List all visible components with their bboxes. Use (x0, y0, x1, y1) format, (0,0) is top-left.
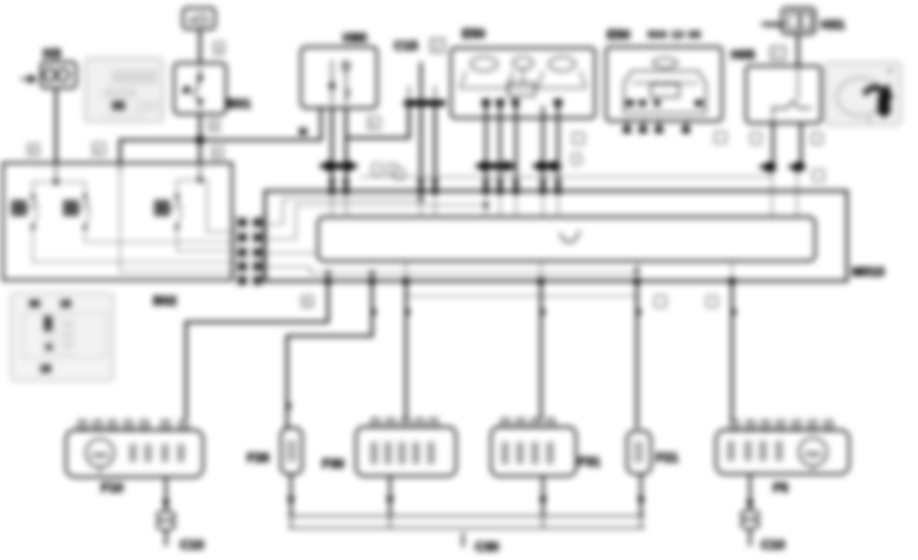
F10 motor symbol (86, 439, 114, 472)
svg-text:M010: M010 (852, 264, 885, 279)
svg-text:15: 15 (60, 299, 72, 310)
wire label (715, 132, 726, 143)
svg-text:E50: E50 (607, 27, 630, 42)
wire C15 to M01 b (434, 106, 437, 190)
wire label (212, 146, 214, 148)
wire arrow (406, 307, 411, 317)
arrow (746, 500, 754, 509)
net line from B02 row2 (262, 205, 486, 239)
fuse box F31 (491, 427, 576, 476)
wire F30 to C30 (389, 476, 391, 516)
svg-text:H05: H05 (731, 47, 755, 62)
svg-text:H3: H3 (43, 45, 61, 61)
wire F21 to C30 (640, 474, 642, 516)
switch 2 (63, 194, 89, 229)
F5 fuse elements (729, 441, 781, 461)
wire F26 to C30 (290, 474, 292, 516)
wire H05 pin1 down (772, 123, 775, 172)
wire label (395, 169, 404, 179)
F10 top pins (79, 421, 187, 429)
junction dot (196, 136, 204, 144)
svg-text:F21: F21 (656, 450, 678, 465)
fuse F21 (627, 431, 651, 474)
lamp H3 (41, 62, 76, 88)
fuse box F30 (356, 427, 456, 476)
switch unit B02 box (3, 163, 232, 280)
switch 3 (154, 194, 181, 229)
wire label (214, 42, 224, 54)
arrow (386, 497, 394, 506)
svg-text:N: N (216, 45, 222, 54)
svg-text:F5: F5 (773, 480, 788, 495)
black arrow icon stem (875, 95, 893, 118)
wire H90 pin2 down (345, 108, 348, 190)
wire H31 to H05 (797, 34, 800, 66)
switch B01 (174, 63, 226, 114)
svg-text:N: N (95, 146, 101, 155)
relay H90 (301, 47, 377, 108)
svg-text:A: A (774, 50, 780, 59)
legend box bottom-left (11, 293, 113, 381)
svg-text:F10: F10 (101, 480, 123, 495)
wires E50 down (486, 106, 558, 190)
wire arrow (732, 307, 737, 317)
svg-text:A: A (434, 42, 440, 51)
F30 top pins (372, 419, 437, 427)
wire label (302, 296, 313, 307)
thin wires top pins to inner box (332, 194, 558, 217)
inline connector C10 (157, 511, 175, 521)
svg-text:500 10 05: 500 10 05 (648, 30, 702, 41)
E50-2 stub wires (627, 121, 686, 128)
E50-2 pins (626, 100, 703, 106)
top edge pin squares (329, 188, 561, 194)
fuse F26 (281, 428, 302, 474)
F5 top pins (731, 421, 832, 429)
pin arrows into M01 (417, 180, 425, 188)
branch to switch3 (177, 180, 200, 192)
wire entry 3 inside (199, 164, 201, 178)
wire arrow (637, 307, 642, 317)
junction arrow pin2 (787, 161, 805, 173)
tail lamp E50-2 (606, 47, 722, 121)
lamp cluster E50 (451, 48, 595, 118)
junction bar E50 left (474, 160, 517, 172)
inline connector C10 right (741, 510, 759, 520)
connector pin pairs (238, 218, 262, 285)
wire F5 to C10 (749, 474, 751, 546)
wire H3 to B02 (55, 88, 58, 164)
wire labels near junction (372, 164, 382, 174)
wire entry 1 inside (55, 164, 57, 180)
junction dot (418, 196, 423, 201)
wire arrow (541, 307, 546, 317)
junction arrows H90 wires (318, 160, 359, 172)
thin drops into M01 (771, 172, 773, 217)
wire B01 junction to B02 (199, 140, 202, 164)
connector B02-M01 body (235, 214, 237, 284)
F31 fuse elements (503, 442, 552, 464)
ECU M01 outer box (265, 191, 847, 281)
sensor H31 (782, 8, 815, 34)
svg-text:N: N (211, 122, 217, 131)
svg-text:H31: H31 (821, 17, 845, 32)
wire M01 to F21 (636, 284, 639, 428)
svg-text:H90: H90 (343, 30, 367, 45)
E50 pins (482, 99, 562, 106)
svg-text:B01: B01 (227, 96, 251, 111)
C15 connector pins (409, 86, 435, 100)
squiggle at H31 (762, 23, 784, 26)
wire connector to B01 (199, 29, 202, 63)
connector above B01 (183, 8, 215, 29)
wire arrow (372, 307, 377, 317)
wire labels (655, 296, 666, 307)
wire arrow F26 (287, 401, 292, 411)
wire C15 branch to H90 (408, 106, 411, 139)
svg-text:F30: F30 (322, 456, 344, 471)
relay box F10 (66, 430, 203, 477)
svg-text:C15: C15 (394, 38, 418, 53)
arrow (637, 497, 645, 506)
arrow (287, 497, 295, 506)
wire labels H05 (751, 133, 761, 144)
wire B01 down (199, 114, 202, 143)
thin drops inner box bottom to edge (328, 261, 732, 281)
wire H90 pin2 branch to C15 (346, 106, 409, 138)
M01 inner box (318, 217, 815, 261)
arrow at lamp H3 (21, 74, 37, 84)
relay box F5 (716, 430, 849, 474)
E50-2 stub terminals (623, 127, 690, 133)
svg-text:N: N (214, 149, 220, 158)
wire C15 to M01 a (420, 106, 423, 190)
arrow inside B01 (182, 84, 193, 94)
arrow (539, 497, 547, 506)
F31 top pins (502, 419, 554, 427)
junction arrow pin1 (758, 161, 776, 173)
svg-text:C30: C30 (475, 539, 499, 554)
svg-text:F31: F31 (578, 454, 600, 469)
wire F10 to C10 (165, 477, 167, 546)
wire M01 to F30 (405, 284, 408, 420)
svg-text:N: N (370, 120, 376, 129)
svg-text:30: 30 (29, 299, 41, 310)
thin net line to M01 (360, 176, 772, 178)
wire label (28, 144, 39, 155)
wire H90 pin1 down (331, 108, 334, 190)
connector rail C30 (288, 516, 645, 528)
svg-text:B02: B02 (153, 293, 177, 308)
wire labels E50 (573, 133, 584, 144)
svg-text:15: 15 (40, 364, 52, 375)
wire M01 to F5 (731, 284, 734, 422)
wire F31 to C30 (542, 476, 544, 516)
bottom edge pin squares (325, 278, 735, 284)
wire H05 pin2 down (800, 123, 803, 167)
F5 motor symbol (799, 438, 827, 470)
junction dots on bottom net (325, 270, 330, 275)
svg-text:N: N (30, 146, 36, 155)
pin arrows into M01 (328, 180, 336, 188)
net line from B02 row4 (262, 267, 637, 273)
switch 1 (11, 194, 37, 229)
net line from B02 row1 (262, 199, 421, 224)
branch to switch1 (33, 182, 56, 192)
branch to switch2 (56, 182, 85, 192)
wire M01 to F10 (186, 284, 328, 419)
wire into C15 (420, 62, 423, 101)
label C30 (462, 533, 464, 547)
legend box top-left (85, 58, 163, 122)
switch H05 (746, 66, 821, 123)
branch right (200, 180, 236, 232)
legend box top-right (825, 62, 901, 125)
junction dot (53, 179, 59, 185)
wire entry 2 inside top stub (119, 163, 121, 172)
net line from B02 row3 (262, 252, 318, 254)
wire tick (299, 128, 307, 135)
internal wiring to connector (33, 163, 236, 272)
label square C15 (431, 39, 444, 52)
symbol inside inner box (560, 231, 580, 242)
arrow on wire (162, 500, 170, 509)
junction dot (197, 177, 203, 183)
pin arrows into M01 (482, 181, 562, 189)
wire bus horizontal (120, 108, 321, 163)
svg-text:C10: C10 (180, 537, 204, 552)
wire label below H90 (368, 117, 380, 129)
C15 connector bar (404, 100, 445, 106)
F10 fuse elements (131, 444, 183, 462)
svg-text:C10: C10 (761, 537, 785, 552)
junction bar E50 right (531, 160, 563, 172)
thin net line below M01 (407, 295, 637, 297)
wire M01 to F26 (287, 284, 372, 427)
svg-text:N: N (304, 298, 310, 307)
svg-text:F26: F26 (247, 450, 269, 465)
F30 fuse elements (372, 442, 433, 464)
wire labels right of B01 wire (209, 120, 219, 131)
wire M01 to F31 (540, 284, 543, 420)
wire label (93, 143, 105, 155)
svg-text:E50: E50 (462, 26, 485, 41)
label square H05 (771, 47, 785, 60)
junction dot (483, 202, 488, 207)
black arrow icon (862, 83, 893, 99)
